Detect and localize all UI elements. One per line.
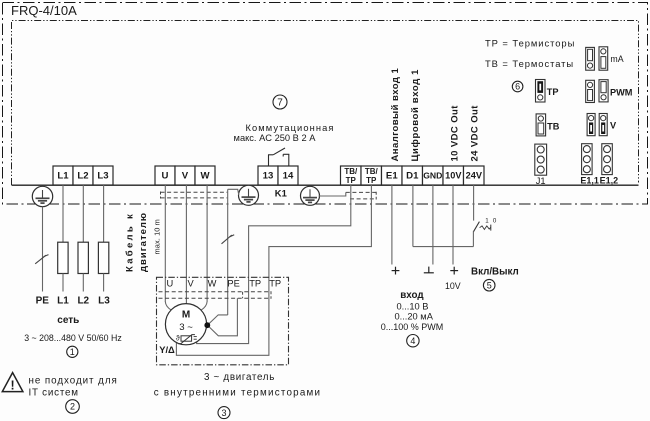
svg-text:двигателю: двигателю bbox=[138, 212, 149, 272]
svg-text:вход: вход bbox=[400, 290, 424, 301]
svg-text:W: W bbox=[200, 171, 210, 182]
svg-text:D1: D1 bbox=[406, 171, 419, 182]
svg-text:1: 1 bbox=[70, 347, 75, 357]
svg-text:TB/: TB/ bbox=[365, 167, 379, 176]
svg-text:сеть: сеть bbox=[57, 315, 79, 326]
svg-text:3: 3 bbox=[221, 408, 226, 418]
svg-text:L1: L1 bbox=[57, 296, 69, 307]
svg-text:V: V bbox=[187, 279, 194, 289]
svg-text:M: M bbox=[182, 309, 190, 320]
svg-text:!: ! bbox=[11, 378, 15, 392]
svg-text:L2: L2 bbox=[77, 296, 89, 307]
svg-text:3 ~ двигатель: 3 ~ двигатель bbox=[204, 372, 275, 383]
svg-text:не подходит для: не подходит для bbox=[29, 376, 118, 387]
svg-text:U: U bbox=[162, 171, 169, 182]
svg-text:Цифровой вход 1: Цифровой вход 1 bbox=[410, 69, 421, 162]
svg-text:max. 10 m: max. 10 m bbox=[152, 219, 161, 254]
svg-text:TB: TB bbox=[547, 122, 560, 132]
svg-text:1 0: 1 0 bbox=[485, 217, 497, 224]
svg-text:3 ~: 3 ~ bbox=[179, 322, 193, 333]
svg-text:V: V bbox=[610, 121, 617, 131]
svg-text:TP: TP bbox=[366, 176, 377, 185]
svg-text:13: 13 bbox=[263, 171, 274, 182]
svg-text:L3: L3 bbox=[97, 171, 108, 182]
svg-text:L2: L2 bbox=[77, 171, 88, 182]
svg-text:4: 4 bbox=[410, 336, 415, 346]
svg-text:PE: PE bbox=[227, 279, 239, 289]
svg-text:6: 6 bbox=[515, 82, 520, 92]
svg-text:ϑ: ϑ bbox=[176, 335, 180, 342]
svg-text:U: U bbox=[166, 279, 173, 289]
svg-text:макс. AC 250 В 2 А: макс. AC 250 В 2 А bbox=[234, 133, 317, 143]
svg-text:K1: K1 bbox=[275, 188, 287, 199]
svg-text:0...100 % PWM: 0...100 % PWM bbox=[381, 322, 444, 332]
svg-text:ТВ = Термостаты: ТВ = Термостаты bbox=[485, 58, 574, 69]
svg-text:2: 2 bbox=[70, 402, 75, 412]
svg-text:TB/: TB/ bbox=[344, 167, 358, 176]
svg-text:3 ~ 208...480 V 50/60 Hz: 3 ~ 208...480 V 50/60 Hz bbox=[24, 333, 122, 343]
svg-text:Y/Δ: Y/Δ bbox=[159, 344, 175, 355]
svg-text:7: 7 bbox=[277, 98, 283, 109]
svg-text:TP: TP bbox=[269, 279, 281, 289]
svg-text:Вкл/Выкл: Вкл/Выкл bbox=[471, 267, 519, 278]
svg-text:W: W bbox=[208, 279, 217, 289]
svg-text:TP: TP bbox=[547, 87, 559, 97]
svg-text:24V: 24V bbox=[466, 171, 483, 181]
svg-text:E1: E1 bbox=[386, 171, 398, 182]
svg-text:L3: L3 bbox=[98, 296, 110, 307]
svg-text:0...10 В: 0...10 В bbox=[396, 302, 428, 312]
svg-text:L1: L1 bbox=[57, 171, 69, 182]
svg-text:14: 14 bbox=[283, 171, 294, 182]
svg-text:Коммутационная: Коммутационная bbox=[245, 123, 334, 133]
svg-text:Кабель к: Кабель к bbox=[125, 212, 136, 272]
svg-text:TP: TP bbox=[346, 176, 357, 185]
svg-text:24 VDC Out: 24 VDC Out bbox=[470, 105, 481, 162]
svg-text:10V: 10V bbox=[445, 281, 461, 291]
svg-text:IT систем: IT систем bbox=[29, 387, 79, 398]
svg-text:GND: GND bbox=[423, 171, 442, 181]
svg-text:10 VDC Out: 10 VDC Out bbox=[450, 105, 461, 162]
svg-text:FRQ-4/10A: FRQ-4/10A bbox=[11, 3, 77, 18]
svg-text:ТР = Термисторы: ТР = Термисторы bbox=[485, 38, 575, 49]
svg-text:с внутренними термисторами: с внутренними термисторами bbox=[154, 387, 322, 398]
svg-text:0...20 мА: 0...20 мА bbox=[394, 311, 433, 321]
svg-text:PWM: PWM bbox=[610, 87, 633, 97]
svg-text:10V: 10V bbox=[445, 171, 462, 181]
svg-text:E1,2: E1,2 bbox=[600, 176, 619, 186]
svg-text:TP: TP bbox=[249, 279, 261, 289]
svg-text:J1: J1 bbox=[536, 176, 546, 186]
svg-text:5: 5 bbox=[487, 280, 492, 290]
svg-text:PE: PE bbox=[36, 296, 50, 307]
svg-text:E1,1: E1,1 bbox=[580, 176, 599, 186]
svg-text:mA: mA bbox=[610, 54, 623, 64]
svg-text:V: V bbox=[182, 171, 189, 182]
svg-text:Аналговый вход 1: Аналговый вход 1 bbox=[390, 68, 401, 162]
